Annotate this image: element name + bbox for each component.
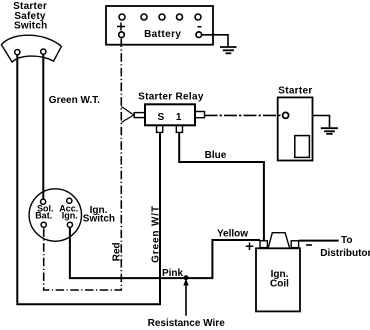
svg-text:To: To: [341, 235, 352, 246]
svg-text:S: S: [157, 112, 164, 123]
svg-text:Distributor: Distributor: [320, 248, 370, 259]
svg-text:Yellow: Yellow: [217, 229, 248, 240]
svg-text:Starter: Starter: [278, 85, 312, 96]
svg-text:Green W.T.: Green W.T.: [49, 95, 100, 106]
svg-text:Pink: Pink: [162, 268, 184, 279]
svg-text:Resistance Wire: Resistance Wire: [148, 318, 226, 329]
svg-text:Red: Red: [112, 242, 123, 261]
svg-text:Battery: Battery: [144, 29, 181, 40]
svg-text:Coil: Coil: [270, 278, 289, 289]
svg-text:Blue: Blue: [205, 150, 227, 161]
svg-text:Green W/T: Green W/T: [151, 205, 162, 263]
svg-text:Starter Relay: Starter Relay: [138, 92, 204, 103]
svg-text:Switch: Switch: [83, 213, 115, 224]
svg-text:Ign.: Ign.: [62, 210, 78, 220]
svg-text:Bat.: Bat.: [35, 210, 52, 220]
svg-text:1: 1: [176, 112, 182, 123]
svg-text:Switch: Switch: [14, 20, 47, 31]
